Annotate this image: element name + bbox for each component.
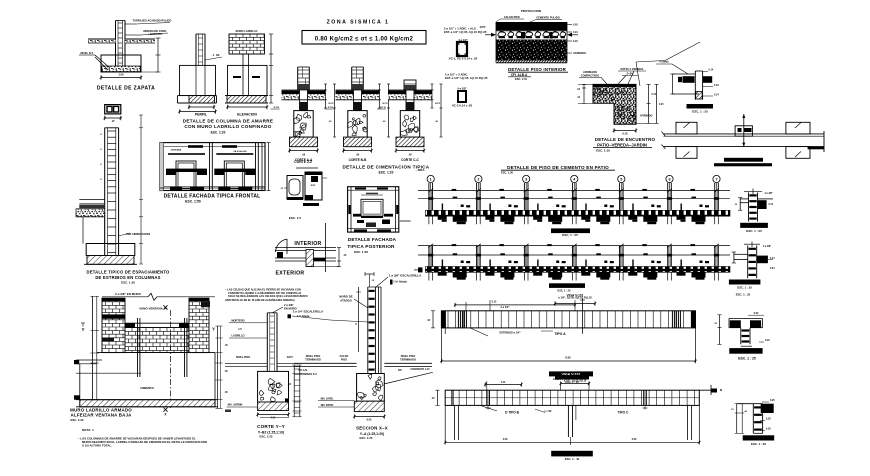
detail: muro ladrillo armado alfeizar ventana baja (74, 292, 228, 417)
svg-text:N.P.T.: N.P.T. (480, 26, 487, 29)
title: viga beam 3 (549, 371, 593, 380)
svg-text:DETALLE TIPICO DE ESPACIAMIENT: DETALLE TIPICO DE ESPACIAMIENTO (87, 270, 171, 275)
svg-text:PERFIL: PERFIL (195, 113, 207, 117)
svg-text:0.50: 0.50 (271, 417, 276, 420)
title: DETALLE DE ZAPATA (97, 86, 155, 92)
strip 1: patio floor section (418, 183, 730, 224)
svg-text:N: N (720, 388, 722, 392)
title: DETALLE DE PISO DE CEMENTO EN PATIO (501, 165, 615, 175)
svg-text:2 ø 3/8" EN MURO: 2 ø 3/8" EN MURO (115, 292, 141, 296)
scale bar beam 4 (551, 451, 593, 461)
svg-text:ESC. 1:50: ESC. 1:50 (354, 250, 368, 254)
svg-text:AFIRMADO: AFIRMADO (640, 115, 653, 118)
svg-text:0.04: 0.04 (714, 84, 719, 87)
svg-text:+ EMPASTE: + EMPASTE (148, 32, 163, 36)
svg-text:VC-3 0.14 x .20: VC-3 0.14 x .20 (452, 104, 473, 108)
svg-text:CONCRETO 1:10: CONCRETO 1:10 (410, 368, 430, 371)
svg-text:Y: Y (81, 327, 84, 332)
svg-text:1.20: 1.20 (501, 382, 506, 384)
svg-text:PATIO–VEREDA–JARDIN: PATIO–VEREDA–JARDIN (597, 142, 647, 147)
section: muro seccion 1-1 (734, 189, 774, 222)
detail: cimentacion C-C (377, 80, 443, 162)
svg-text:FALSO PISO: FALSO PISO (504, 15, 520, 19)
title: ZONA SISMICA 1 (327, 20, 390, 26)
svg-text:DE ESTRIBOS EN COLUMNAS: DE ESTRIBOS EN COLUMNAS (95, 275, 160, 280)
svg-text:(VER DETALLE EN EL PLANO DE AL: (VER DETALLE EN EL PLANO DE ALBAÑILERIA … (225, 299, 295, 302)
svg-text:ESC. 1 : 25: ESC. 1 : 25 (562, 233, 578, 237)
svg-text:EN MURO: EN MURO (284, 307, 297, 311)
title: DETALLE DE COLUMNA DE AMARRE (183, 119, 273, 135)
svg-text:ø 1/4": 1@.05, 8@.10, R@.25: ø 1/4": 1@.05, 8@.10, R@.25 (558, 297, 592, 300)
svg-text:N.F.P.: N.F.P. (435, 103, 441, 105)
scale bar seccion 2-2 (729, 280, 761, 290)
svg-text:VER CIMENTACION: VER CIMENTACION (126, 232, 150, 236)
svg-text:0.14: 0.14 (769, 203, 774, 206)
svg-text:NIV. JARDIN: NIV. JARDIN (228, 404, 243, 407)
beam: viga de cimentacion elevation (427, 293, 751, 364)
svg-text:NIV. PATIO: NIV. PATIO (321, 404, 334, 407)
note box: bearing capacity (302, 31, 426, 45)
svg-text:VENTANA: VENTANA (171, 149, 182, 152)
svg-text:DETALLE DE ZAPATA: DETALLE DE ZAPATA (97, 86, 155, 92)
svg-text:MURO LADRILLO: MURO LADRILLO (236, 29, 258, 33)
svg-text:ESTRIBOS ø 1/4": ESTRIBOS ø 1/4" (499, 331, 521, 335)
svg-text:EXTERIOR: EXTERIOR (276, 271, 305, 277)
svg-text:ZONA SISMICA 1: ZONA SISMICA 1 (327, 20, 390, 26)
svg-text:6: 6 (668, 178, 670, 182)
plan: muro strip with column stubs (662, 114, 825, 158)
svg-text:DETALLE FACHADA TIPICA FRONTAL: DETALLE FACHADA TIPICA FRONTAL (164, 194, 261, 200)
svg-text:PISO: PISO (341, 357, 347, 361)
svg-text:TERMINADO: TERMINADO (305, 357, 321, 361)
svg-text:TERMINADO: TERMINADO (400, 357, 416, 361)
svg-text:DETALLE FACHADA: DETALLE FACHADA (348, 237, 397, 242)
svg-text:LADRILLO: LADRILLO (231, 334, 244, 338)
title: MURO LADRILLO ARMADO (70, 408, 132, 422)
svg-text:CEMENTO PULIDO: CEMENTO PULIDO (536, 16, 559, 20)
svg-text:ESC. 1 : 25: ESC. 1 : 25 (746, 229, 762, 233)
plan: muro interior-exterior (275, 223, 347, 277)
title: CORTE Y-Y (257, 424, 285, 439)
svg-text:N.P.T.: N.P.T. (287, 356, 294, 359)
svg-text:4 ø 3/8": 4 ø 3/8" (765, 192, 773, 195)
scale bar beam4 section (743, 435, 775, 446)
svg-text:2 ø 1/4" ESCALERILLA: 2 ø 1/4" ESCALERILLA (293, 310, 323, 314)
svg-text:2 ø 1/2": 2 ø 1/2" (501, 306, 511, 309)
svg-text:DETALLE DE COLUMNA DE AMARRE: DETALLE DE COLUMNA DE AMARRE (183, 119, 273, 124)
svg-text:0.04: 0.04 (770, 267, 775, 270)
svg-text:0.25: 0.25 (766, 418, 771, 421)
note: right small text block (225, 288, 308, 302)
scale bar: esc 1:25 (687, 104, 714, 113)
svg-text:TARRAJEO ACABADO PULIDO: TARRAJEO ACABADO PULIDO (133, 19, 171, 23)
svg-text:5: 5 (620, 178, 622, 182)
beam: viga de amarre elevation lower (431, 375, 722, 445)
svg-text:4 . 3/8: 4 . 3/8 (213, 54, 220, 57)
svg-text:ESC. 1:10: ESC. 1:10 (515, 77, 528, 81)
svg-text:0.10: 0.10 (573, 31, 578, 34)
title: SECCION X-X (356, 426, 388, 441)
svg-text:S/C: S/C (398, 369, 402, 372)
svg-text:ESC. 1 : 25: ESC. 1 : 25 (738, 357, 756, 361)
svg-text:DETALLE DE ENCUENTRO: DETALLE DE ENCUENTRO (595, 137, 656, 142)
svg-text:ESP: ESP (311, 185, 316, 187)
svg-text:CIMIENTO: CIMIENTO (140, 386, 154, 390)
stray label vereda (416, 168, 426, 172)
svg-text:2: 2 (477, 178, 479, 182)
svg-text:0.14: 0.14 (709, 69, 714, 72)
scale bar strip 2 (549, 283, 585, 292)
svg-text:ESC. 1:5: ESC. 1:5 (289, 216, 302, 220)
scale bar strip 1 (551, 228, 590, 237)
svg-text:ESC. 1:20: ESC. 1:20 (501, 171, 514, 175)
svg-text:0.14: 0.14 (714, 94, 719, 97)
svg-text:ESC. 1:20: ESC. 1:20 (211, 131, 226, 135)
svg-text:ESC. 1:20: ESC. 1:20 (71, 418, 84, 422)
svg-text:DETALLE DE PISO DE CEMENTO EN: DETALLE DE PISO DE CEMENTO EN PATIO (507, 165, 609, 170)
svg-text:4.20: 4.20 (632, 438, 637, 441)
svg-text:N.F.P.: N.F.P. (329, 103, 335, 105)
svg-text:VEREDA DE CONC.: VEREDA DE CONC. (143, 29, 167, 33)
svg-text:A SU ALTURA TOTAL.: A SU ALTURA TOTAL. (82, 443, 112, 447)
svg-text:1 h/ hilada: 1 h/ hilada (393, 280, 407, 284)
svg-text:ø 1/4": 1@.05, 8@.10: ø 1/4": 1@.05, 8@.10 (564, 380, 587, 383)
detail: encuentro patio-vereda-jardin L-section (577, 42, 700, 136)
svg-text:8.55: 8.55 (565, 356, 571, 360)
svg-text:ESC. 1 : 25: ESC. 1 : 25 (558, 289, 572, 292)
grid bubbles 1-7 strip 1 (427, 175, 720, 190)
section: muro armado vertical ladder (288, 272, 423, 374)
svg-text:ESC. 1 : 25: ESC. 1 : 25 (736, 293, 751, 297)
svg-text:N.F.P.: N.F.P. (383, 103, 389, 105)
svg-text:0.15: 0.15 (622, 132, 628, 136)
svg-text:0.02: 0.02 (573, 24, 578, 27)
section: VC-3 column 0.14x0.20 (445, 73, 488, 108)
svg-text:ESC. 1:25: ESC. 1:25 (260, 435, 273, 439)
svg-text:PROYECCION: PROYECCION (521, 9, 541, 13)
svg-text:ESC. 1:20: ESC. 1:20 (121, 281, 135, 285)
elevation: fachada tipica posterior (348, 187, 411, 232)
svg-text:ESC. 1 : 25: ESC. 1 : 25 (692, 109, 708, 113)
svg-text:VANO VENTANA: VANO VENTANA (139, 306, 163, 310)
scale bar beam3 section (729, 348, 762, 360)
svg-text:4 c/amb: 4 c/amb (659, 60, 669, 64)
svg-text:0.50: 0.50 (367, 419, 372, 422)
section: VC-1 VC-2 column 0.14x0.20 (444, 27, 487, 61)
svg-text:CORTE C-C: CORTE C-C (401, 158, 419, 162)
detail: columna de amarre PERFIL (178, 34, 223, 117)
svg-text:MORTERO: MORTERO (231, 319, 244, 323)
title: DETALLE PISO INTERIOR (508, 67, 568, 81)
svg-text:0.25: 0.25 (766, 428, 771, 431)
svg-text:ESC. 1:25: ESC. 1:25 (360, 436, 373, 440)
svg-text:CON MURO LADRILLO CONFINADO: CON MURO LADRILLO CONFINADO (184, 124, 271, 129)
svg-text:SOLO SE RELLENARAN LAS CELDAS: SOLO SE RELLENARAN LAS CELDAS QUE LLEVAN… (228, 294, 308, 298)
svg-text:ATADOS: ATADOS (340, 298, 352, 302)
title: DETALLE FACHADA TIPICA POSTERIOR (347, 237, 396, 254)
svg-text:NIVEL N.T.: NIVEL N.T. (81, 51, 94, 55)
svg-text:CFI. ALB.A: CFI. ALB.A (511, 73, 528, 77)
svg-text:ESC. 1 : 25: ESC. 1 : 25 (751, 442, 766, 446)
svg-text:SECCION X–X: SECCION X–X (356, 426, 388, 431)
svg-text:NIV. JARD.: NIV. JARD. (321, 398, 334, 401)
scale bars below plan strip (714, 158, 772, 167)
section: viga seccion lower right (731, 399, 776, 433)
svg-text:D TIPO B: D TIPO B (505, 411, 520, 415)
svg-text:ESC. 1 : 25: ESC. 1 : 25 (737, 285, 752, 289)
svg-text:0.50: 0.50 (754, 312, 759, 315)
svg-text:4 ø 3/8": 4 ø 3/8" (457, 87, 467, 91)
svg-text:1 ø 3/8" ESCALERILLA: 1 ø 3/8" ESCALERILLA (389, 274, 422, 278)
svg-text:EST. ø 1/4" 1@.05, 4@.10 R@.25: EST. ø 1/4" 1@.05, 4@.10 R@.25 (444, 30, 487, 34)
svg-text:COMPACTADO: COMPACTADO (581, 73, 600, 77)
svg-text:0.20: 0.20 (765, 339, 770, 342)
svg-text:CORTE 2-2: CORTE 2-2 (294, 160, 312, 164)
svg-text:2 ø 3/8": 2 ø 3/8" (284, 303, 294, 307)
svg-text:TIPO C: TIPO C (618, 411, 629, 415)
svg-text:N.T.N.: N.T.N. (274, 107, 280, 109)
svg-text:N.T.N.: N.T.N. (380, 107, 386, 109)
svg-text:4 ø 3/8": 4 ø 3/8" (763, 245, 771, 248)
title: DETALLE FACHADA TIPICA FRONTAL (164, 194, 261, 204)
svg-text:TIPICA POSTERIOR: TIPICA POSTERIOR (347, 244, 395, 249)
svg-text:4.20: 4.20 (503, 438, 508, 441)
strip 2: patio floor section lower (414, 244, 730, 281)
svg-text:1.00: 1.00 (118, 73, 124, 77)
svg-text:ELEVACION: ELEVACION (237, 113, 257, 117)
svg-text:CORTE Y–Y: CORTE Y–Y (257, 424, 285, 429)
title: DETALLE TIPICO DE ESPACIAMIENTO (87, 270, 171, 285)
detail: cimentacion B-B (325, 67, 391, 162)
svg-text:TIPO A: TIPO A (554, 332, 566, 336)
svg-text:Y: Y (212, 327, 215, 332)
svg-text:AFIRMADO: AFIRMADO (573, 52, 586, 55)
svg-text:AFIRMADO S-X: AFIRMADO S-X (299, 373, 317, 376)
detail: espaciamiento de estribos en columnas (76, 105, 150, 265)
detail: cimentacion A-A (271, 67, 337, 162)
section X-X: floor lines and foundation (285, 354, 433, 421)
title: DETALLE DE ENCUENTRO (593, 137, 656, 152)
svg-text:1: 1 (430, 178, 432, 182)
svg-text:0.20: 0.20 (573, 40, 578, 43)
svg-text:INTERIOR: INTERIOR (294, 241, 321, 247)
svg-text:DETALLE PISO INTERIOR: DETALLE PISO INTERIOR (508, 67, 567, 72)
detail: piso interior layered floor (480, 9, 586, 63)
svg-text:L=.60: L=.60 (545, 409, 552, 413)
section: viga seccion T (714, 312, 770, 346)
svg-text:0.25: 0.25 (659, 104, 664, 106)
svg-text:N.T.N.: N.T.N. (328, 107, 334, 109)
section: corte Y-Y wall and foundation (225, 303, 300, 420)
section: muro seccion 2-2 (732, 242, 775, 279)
svg-text:3: 3 (525, 178, 527, 182)
svg-text:...RDA: ...RDA (416, 168, 426, 172)
svg-text:NIVEL PISO: NIVEL PISO (236, 356, 250, 359)
svg-text:NOTA: 1: NOTA: 1 (82, 428, 94, 432)
svg-text:VC-1, VC-2 0.14 x .20: VC-1, VC-2 0.14 x .20 (449, 57, 478, 61)
svg-text:EST. ø 1/4" 1@.05, 4@.10 R@.25: EST. ø 1/4" 1@.05, 4@.10 R@.25 (445, 76, 488, 80)
svg-text:7: 7 (715, 178, 717, 182)
svg-text:3.15: 3.15 (492, 301, 497, 304)
svg-text:0.25: 0.25 (770, 399, 775, 402)
note: nota 1 text block (78, 428, 208, 447)
svg-text:ESC. 1:20: ESC. 1:20 (379, 171, 394, 175)
svg-text:ESC. 1:10: ESC. 1:10 (596, 148, 610, 152)
section: corte 2-2 window sill (280, 160, 327, 220)
detail: columna de amarre ELEVACION (225, 29, 273, 117)
scale bar seccion 1-1 (740, 223, 768, 233)
detail: DETALLE DE ZAPATA footing section (79, 19, 171, 80)
svg-text:0.15: 0.15 (652, 94, 657, 96)
svg-text:ESC. 1 : 40: ESC. 1 : 40 (565, 457, 580, 461)
svg-text:VA 0.60x0.40: VA 0.60x0.40 (233, 150, 247, 153)
elevation: fachada tipica frontal (160, 143, 271, 191)
svg-text:ESC. 1:50: ESC. 1:50 (185, 200, 201, 204)
svg-text:PATIO 4 VEREDA: PATIO 4 VEREDA (621, 67, 644, 71)
detail: encuentro de muros T plan (656, 60, 719, 100)
svg-text:CORTE B-B: CORTE B-B (349, 158, 367, 162)
title: DETALLE DE CIMENTACION TIPICA (343, 165, 430, 175)
svg-text:0.80 Kg/cm2 ≤ σt ≤ 1.00 Kg/cm2: 0.80 Kg/cm2 ≤ σt ≤ 1.00 Kg/cm2 (315, 36, 414, 42)
